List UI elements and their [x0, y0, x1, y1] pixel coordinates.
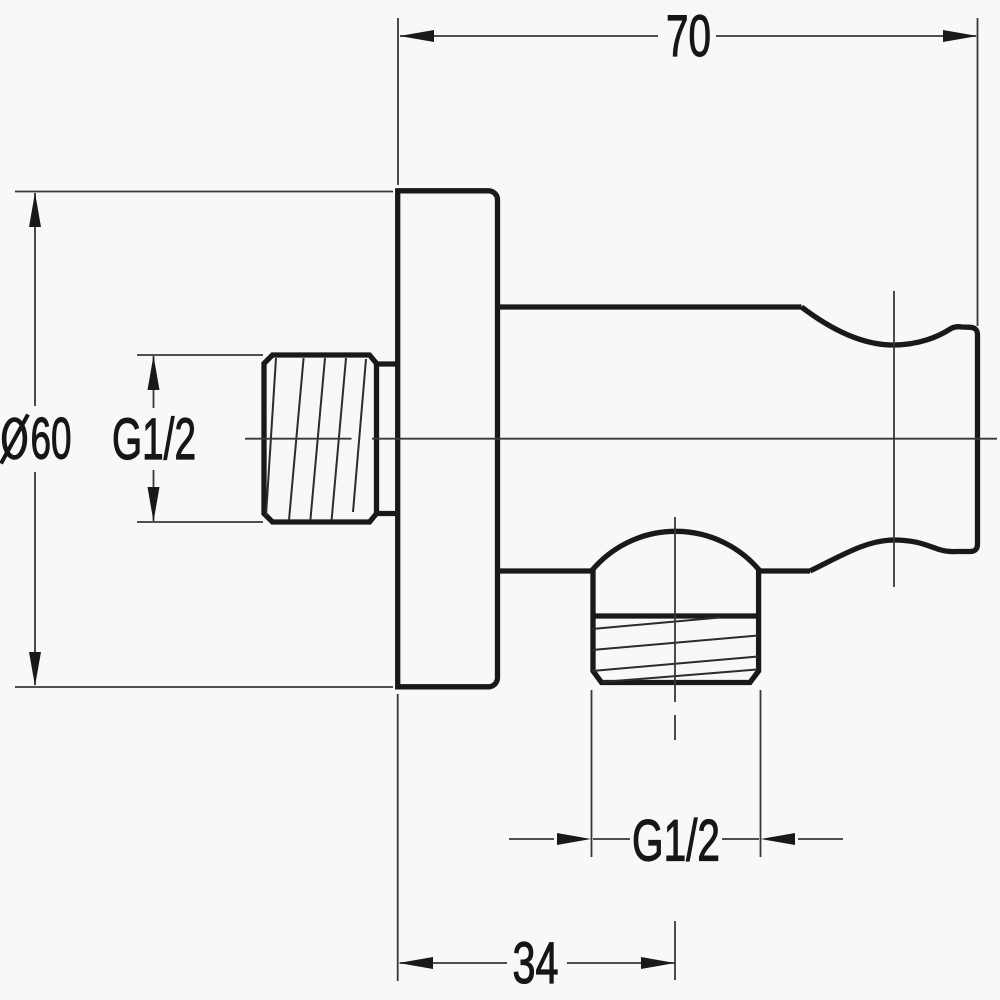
dimension 70: left extension line: [397, 18, 399, 185]
svg-text:60: 60: [31, 407, 72, 472]
dimension G1/2 outlet: right extension line: [760, 690, 762, 857]
dimension G1/2 outlet: left extension line: [591, 690, 593, 857]
nipple thread line 5: [353, 359, 366, 512]
dimension 34: left arrowhead: [399, 957, 434, 969]
horizontal centerline: [245, 438, 997, 440]
holder end vertical centerline: [893, 291, 895, 587]
dimension 34: left extension line: [397, 694, 399, 981]
outlet thread line 4: [602, 670, 757, 683]
dimension O60: top arrowhead: [29, 193, 41, 228]
dimension G1/2 nipple: top arrowhead: [148, 356, 160, 391]
dimension O60: top extension line: [15, 191, 393, 193]
dimension G1/2 outlet: right leader line: [798, 838, 843, 840]
nipple collar bottom line: [377, 511, 397, 516]
holder right end with cradle groove: [802, 307, 978, 571]
svg-text:G1/2: G1/2: [112, 407, 196, 472]
bottom outlet divider line: [593, 613, 759, 618]
holder body bottom edge left segment: [498, 568, 592, 573]
dimension G1/2 outlet: left arrowhead: [557, 833, 591, 845]
holder body top edge: [498, 304, 802, 309]
dimension G1/2 nipple: bottom extension line: [137, 521, 263, 523]
dimension G1/2 nipple: bottom arrowhead: [148, 487, 160, 522]
dimension G1/2 outlet: left text stub: [593, 838, 630, 840]
bottom outlet walls and chamfered bottom: [593, 570, 759, 683]
dimension 34: dimension line: [400, 962, 674, 964]
dimension G1/2 nipple: dimension line: [153, 356, 155, 521]
dimension G1/2 outlet: left leader line: [509, 838, 554, 840]
nipple collar top line: [377, 361, 397, 366]
dimension O60: dimension line: [34, 193, 36, 685]
nipple thread line 1: [266, 358, 276, 516]
svg-text:G1/2: G1/2: [632, 809, 720, 874]
nipple thread line 2: [289, 358, 304, 520]
dimension 70: dimension line: [400, 35, 976, 37]
nipple thread line 3: [310, 358, 325, 520]
dimension G1/2 nipple: top extension line: [137, 354, 263, 356]
threaded nipple G1/2 (left, hatched): [264, 355, 377, 522]
dimension 70: left arrowhead: [400, 30, 435, 42]
holder body bottom edge right segment: [760, 568, 810, 573]
outlet dome arc: [592, 531, 761, 571]
dimension 70: right extension line: [977, 18, 979, 326]
dimension 70: right arrowhead: [943, 30, 978, 42]
svg-text:70: 70: [666, 4, 711, 69]
outlet vertical centerline: [674, 517, 676, 740]
wall plate (escutcheon, side view): [398, 191, 498, 687]
nipple thread line 4: [332, 358, 346, 520]
outlet thread line 3: [592, 657, 758, 672]
dimension 34: right arrowhead: [641, 957, 675, 969]
dimension O60: bottom arrowhead: [29, 652, 41, 686]
dimension 34: right extension line (outlet axis): [674, 921, 676, 980]
dimension G1/2 outlet: right text stub: [722, 838, 759, 840]
dimension O60: value text: [1, 407, 72, 472]
dimension O60: bottom extension line: [15, 686, 393, 688]
svg-text:34: 34: [513, 931, 559, 996]
dimension G1/2 outlet: right arrowhead: [761, 833, 796, 845]
outlet thread line 1: [592, 618, 720, 630]
outlet thread line 2: [592, 636, 758, 651]
